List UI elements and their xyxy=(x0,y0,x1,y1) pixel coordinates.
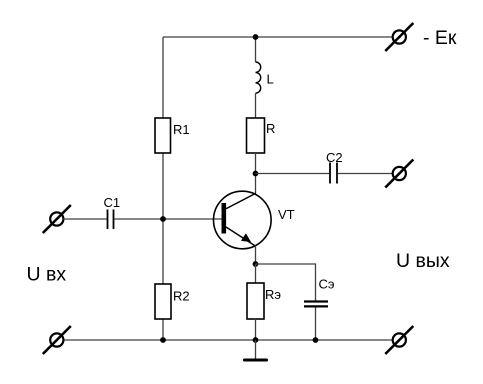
svg-text:R: R xyxy=(266,121,275,136)
wire base node down to R2 xyxy=(162,219,164,284)
resistor R xyxy=(247,118,276,153)
transistor VT xyxy=(214,191,295,249)
node collector junction xyxy=(253,171,259,177)
wire Re bottom to rail xyxy=(255,319,257,340)
inductor L xyxy=(256,62,274,118)
wire R1 bottom to base node xyxy=(162,153,164,219)
terminal -Ek xyxy=(385,23,413,51)
wire C1 to transistor base xyxy=(114,218,221,220)
wire collector node to C2 xyxy=(256,173,330,175)
svg-text:C1: C1 xyxy=(104,195,121,210)
wire emitter node to Ce branch xyxy=(256,264,316,301)
svg-text:Сэ: Сэ xyxy=(319,277,335,292)
svg-text:VT: VT xyxy=(278,207,295,222)
resistor R1 xyxy=(155,118,190,153)
svg-text:R2: R2 xyxy=(173,289,190,304)
terminal output top xyxy=(385,160,413,188)
node top junction xyxy=(253,34,259,40)
resistor R2 xyxy=(155,284,190,319)
node base junction xyxy=(160,216,166,222)
wire bottom rail xyxy=(63,339,392,341)
wire emitter node down to Re xyxy=(255,264,257,283)
svg-text:U вых: U вых xyxy=(396,250,450,272)
wire left branch: top rail down to R1 xyxy=(162,37,164,118)
wire collector node down into transistor xyxy=(255,174,257,194)
svg-text:C2: C2 xyxy=(326,150,343,165)
wire emitter to emitter node xyxy=(255,246,257,264)
ground xyxy=(245,340,267,360)
node rail/ground junction xyxy=(253,337,259,343)
wire R bottom to collector node xyxy=(255,153,257,174)
wire R2 bottom to bottom rail xyxy=(162,319,164,340)
capacitor C2 xyxy=(326,150,393,184)
resistor Re xyxy=(247,283,281,319)
svg-text:U вх: U вх xyxy=(27,264,67,286)
terminal bottom right xyxy=(385,326,413,354)
capacitor Ce xyxy=(304,277,335,341)
terminal input xyxy=(43,205,71,233)
svg-text:Rэ: Rэ xyxy=(265,287,281,302)
svg-text:- Ек: - Ек xyxy=(423,27,457,49)
wire input terminal to C1 xyxy=(63,218,106,220)
svg-text:R1: R1 xyxy=(173,122,190,137)
wire middle branch: top node down to inductor xyxy=(255,37,257,62)
svg-text:L: L xyxy=(267,72,274,87)
node emitter junction xyxy=(253,261,259,267)
terminal bottom left xyxy=(43,326,71,354)
node rail/Ce junction xyxy=(313,337,319,343)
node rail/R2 junction xyxy=(160,337,166,343)
capacitor C1 xyxy=(104,195,121,229)
wire top rail from R1 branch to -Ek terminal xyxy=(163,36,392,38)
